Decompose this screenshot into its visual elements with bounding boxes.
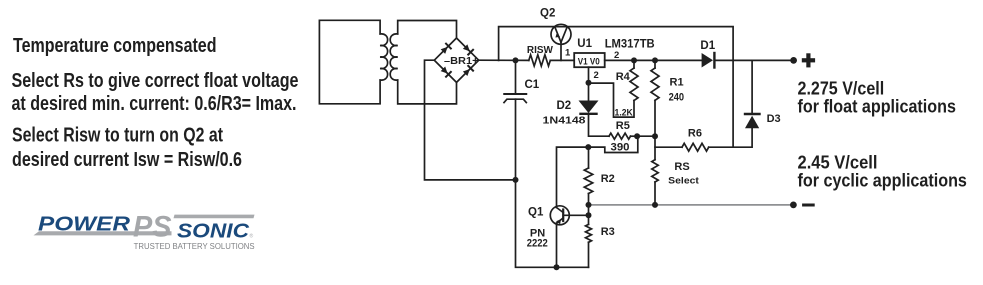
svg-text:Q1: Q1 bbox=[528, 207, 544, 219]
node R4 top bbox=[631, 57, 637, 63]
resistor R6 bbox=[682, 143, 709, 151]
resistor R2 bbox=[588, 147, 590, 168]
transformer T1 primary winding bbox=[319, 20, 387, 104]
node R5 right bbox=[634, 133, 640, 139]
bridge rectifier BR1 bbox=[434, 38, 478, 82]
svg-text:SONIC: SONIC bbox=[177, 221, 250, 243]
node R1 top bbox=[652, 57, 658, 63]
svg-text:1N4148: 1N4148 bbox=[543, 115, 586, 127]
resistor RISW bbox=[529, 55, 551, 66]
svg-text:Select Rs to give correct floa: Select Rs to give correct float voltage bbox=[12, 70, 299, 92]
node R1 bottom bbox=[652, 133, 658, 139]
svg-text:PS: PS bbox=[133, 211, 172, 244]
svg-text:C1: C1 bbox=[525, 79, 540, 91]
wire bridge minus down to C1 minus node bbox=[425, 60, 516, 180]
wire U1 output rail to D1 bbox=[605, 59, 702, 61]
svg-text:2: 2 bbox=[594, 70, 599, 81]
resistor R4 bbox=[630, 68, 638, 101]
wire C1 minus down to ground rail bbox=[516, 180, 589, 267]
resistor R3 bbox=[588, 215, 590, 224]
wire R6 to D3 bottom bbox=[709, 128, 752, 147]
svg-text:1: 1 bbox=[565, 48, 571, 59]
svg-text:U1: U1 bbox=[577, 38, 592, 50]
svg-text:–BR1+: –BR1+ bbox=[444, 55, 479, 67]
svg-text:V1 V0: V1 V0 bbox=[578, 57, 600, 67]
wire detour R5 junction to R2 node bbox=[588, 136, 638, 152]
svg-text:D3: D3 bbox=[767, 113, 781, 125]
node bridge plus / C1 bbox=[513, 57, 519, 63]
svg-text:Select Risw to turn on Q2 at: Select Risw to turn on Q2 at bbox=[12, 125, 223, 147]
svg-text:1.2K: 1.2K bbox=[615, 108, 634, 118]
wire negative rail (gray) bbox=[589, 204, 794, 206]
node minus terminal bbox=[790, 202, 797, 209]
svg-text:240: 240 bbox=[669, 91, 685, 103]
node Q1 collector bbox=[585, 144, 591, 150]
svg-text:D2: D2 bbox=[557, 100, 572, 112]
capacitor C1 bbox=[504, 60, 526, 179]
wire adj to R4 bottom loop around 1.2K bbox=[589, 83, 635, 117]
svg-text:desired current Isw = Risw/0.6: desired current Isw = Risw/0.6 bbox=[12, 149, 242, 171]
svg-text:at desired min. current: 0.6/R: at desired min. current: 0.6/R3= Imax. bbox=[12, 93, 297, 115]
plus symbol bbox=[802, 53, 815, 67]
svg-text:R1: R1 bbox=[670, 76, 684, 88]
op-amp U1 regulator box bbox=[574, 53, 605, 67]
svg-text:R3: R3 bbox=[601, 226, 615, 238]
node C1 minus bbox=[513, 177, 519, 183]
minus symbol bbox=[802, 204, 815, 207]
svg-text:R6: R6 bbox=[688, 127, 702, 139]
svg-text:TRUSTED BATTERY SOLUTIONS: TRUSTED BATTERY SOLUTIONS bbox=[134, 242, 255, 251]
wire R1 junction down to RS and R6 branch bbox=[654, 136, 656, 160]
resistor RS bbox=[652, 160, 658, 182]
svg-text:Temperature compensated: Temperature compensated bbox=[13, 35, 217, 57]
node Q1 emitter bbox=[554, 264, 560, 270]
svg-text:for float applications: for float applications bbox=[798, 96, 956, 116]
wire Q2 collector rail bbox=[499, 27, 733, 148]
node R2 bottom bbox=[586, 202, 592, 208]
wire RISW to U1 bbox=[550, 59, 574, 61]
resistor R5 bbox=[609, 133, 631, 139]
svg-text:Select: Select bbox=[668, 176, 700, 187]
diode D1 bbox=[702, 53, 794, 68]
svg-text:®: ® bbox=[250, 233, 254, 240]
LEFT TEXT BLOCK bbox=[12, 35, 299, 171]
svg-text:for cyclic applications: for cyclic applications bbox=[798, 170, 967, 190]
OUTPUT LABELS bbox=[798, 79, 967, 191]
svg-text:D1: D1 bbox=[700, 40, 715, 52]
resistor R1 bbox=[651, 68, 659, 100]
svg-text:RISW: RISW bbox=[527, 44, 553, 56]
svg-text:POWER: POWER bbox=[38, 214, 131, 236]
node U1 adj bbox=[586, 80, 592, 86]
node Q1 base bbox=[586, 212, 592, 218]
wire bridge plus to RISW bbox=[479, 59, 529, 61]
svg-text:LM317TB: LM317TB bbox=[605, 39, 655, 51]
diode D3 bbox=[745, 60, 760, 128]
node RS bottom bbox=[652, 202, 658, 208]
transistor Q2 bbox=[551, 24, 571, 60]
svg-text:2222: 2222 bbox=[527, 238, 548, 250]
svg-text:Q2: Q2 bbox=[540, 8, 555, 20]
POWER SONIC LOGO bbox=[34, 211, 255, 251]
wire U1 adj pin bbox=[588, 67, 590, 83]
svg-text:R5: R5 bbox=[616, 120, 630, 132]
wire R6 branch bbox=[655, 146, 682, 148]
svg-text:2: 2 bbox=[614, 50, 619, 61]
svg-text:RS: RS bbox=[674, 161, 689, 173]
transformer T1 secondary winding bbox=[390, 21, 456, 104]
node plus terminal bbox=[790, 57, 797, 64]
svg-text:R4: R4 bbox=[616, 71, 631, 83]
transistor Q1 bbox=[550, 147, 588, 267]
wire R5 junction to R1 bottom junction bbox=[637, 135, 655, 137]
diode D2 bbox=[579, 83, 610, 137]
svg-text:R2: R2 bbox=[601, 173, 615, 185]
